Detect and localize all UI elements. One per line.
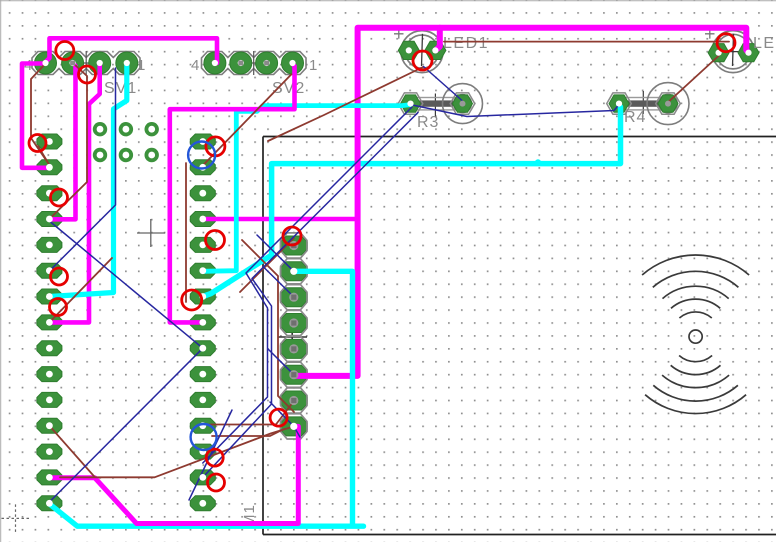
wire trace cyan SV1-4 to JP1-7 <box>49 63 126 297</box>
connector JP1 pads (left column) <box>37 134 62 511</box>
wire airwire maroon to SV3-6 <box>242 240 294 412</box>
LED2 pads <box>708 44 759 62</box>
header SV1 outline <box>32 52 140 75</box>
wire airwire maroon cross SV3-1 <box>240 238 294 292</box>
wire airwire navy LED1 to R3-2 <box>424 67 463 101</box>
wire trace magenta JP2-4 branch to bus <box>203 217 358 222</box>
wire airwire navy JP2-9 to JP1-15 <box>49 348 202 502</box>
pad drill holes <box>42 47 751 506</box>
origin cross R3 <box>424 94 447 118</box>
DRC error markers (red circles) <box>29 34 735 491</box>
svg-text:R4: R4 <box>624 109 646 126</box>
wire trace cyan R4-1 to JP2-7 <box>203 105 621 297</box>
wire airwire maroon JP2-12 to SV3-7 <box>206 401 294 425</box>
R3 pads <box>401 95 473 112</box>
origin cross U1 (module at 150,233) <box>137 219 165 247</box>
wire airwire navy SV1-4 to JP1-6 <box>49 68 115 271</box>
svg-text:4: 4 <box>191 57 200 74</box>
wire airwire navy into SV3-3 <box>263 267 296 300</box>
wire airwire navy steep bottom <box>189 410 232 500</box>
resistor R4 pad rings <box>647 83 689 125</box>
wire airwire maroon SV1-1 to JP1-2 <box>31 64 49 166</box>
svg-text:SV1: SV1 <box>104 80 137 97</box>
wire trace magenta power bus to LED2 <box>294 28 749 376</box>
wire trace cyan R3-1 to JP2-6 <box>203 105 411 272</box>
wire airwire navy into SV3-8 <box>270 402 300 437</box>
LED2 plus polarity mark <box>705 29 715 39</box>
wire airwire navy R3 to R4 <box>411 105 620 117</box>
wire airwire navy R3-1 long diagonal <box>203 107 412 463</box>
svg-text:1: 1 <box>309 57 318 74</box>
origin crosshair sheet (dashed, bottom left) <box>2 504 30 532</box>
connector SV3 pin collars <box>281 233 307 439</box>
R4 pad collars <box>607 93 681 114</box>
wire board-outline left edge <box>262 137 264 535</box>
connector JP2 pads (middle column) <box>190 134 215 511</box>
connector SV3 pads (right column) <box>280 236 307 436</box>
svg-text:LED: LED <box>753 35 776 52</box>
wire board-outline top edge <box>263 136 776 138</box>
wire airwire maroon JP1-1 to JP1-2 <box>38 146 49 165</box>
LED1 silkscreen circles <box>401 31 443 73</box>
wire airwire navy JP1-4 to JP2-9 <box>49 221 202 348</box>
wire board-outline bottom edge <box>263 534 776 536</box>
svg-text:1: 1 <box>137 57 146 74</box>
header SV2 outline <box>202 52 307 75</box>
wire trace magenta SV1-2 to JP1-3 <box>49 64 75 219</box>
wire airwire maroon SV2-1 to JP2-2 <box>203 74 291 165</box>
wire trace magenta SV1-1 to SV2-4 <box>46 38 218 63</box>
origin cross R4 <box>632 91 655 114</box>
wire airwire maroon SV1-2 to JP1-4 <box>49 64 87 219</box>
SV3 pad holes (gray rings) <box>289 241 298 430</box>
resistor R4 body <box>623 98 661 110</box>
wire trace magenta JP1-14 to SV3-8 <box>49 426 298 523</box>
header SV2 pads 1-4 <box>204 52 304 74</box>
frame top edge <box>0 0 776 2</box>
wire airwire maroon to JP1-8 <box>49 258 112 322</box>
frame left edge <box>0 0 2 542</box>
resistor R3 pad rings <box>443 84 483 124</box>
wire airwire maroon LED1 to LED2 <box>444 41 729 43</box>
LED2 silkscreen circles <box>712 31 754 73</box>
wire airwire navy R3-1b long diagonal <box>203 113 418 478</box>
wire airwire maroon LED2 to R4-2 <box>669 56 719 102</box>
origin cross SV3 (column connector) <box>278 323 307 351</box>
origin cross SV2 <box>242 51 267 75</box>
antenna logo (wifi arcs) <box>642 255 749 414</box>
header SV1 pads 1-4 <box>35 52 138 74</box>
junction dot on cyan net <box>535 159 541 165</box>
wire airwire maroon LED1 to JP2 <box>268 67 423 141</box>
svg-text:LED1: LED1 <box>443 35 489 52</box>
wire airwire navy into SV3-6 <box>268 349 294 375</box>
R3 pad collars <box>398 93 475 114</box>
origin cross SV1 <box>74 51 98 75</box>
wire trace magenta bus branch to LED1 <box>435 28 439 51</box>
resistor R3 body <box>417 98 455 110</box>
LED1 plus polarity mark <box>394 29 404 39</box>
wire trace magenta SV1-3 to JP1-8 <box>49 64 99 322</box>
R3 R4 right pad holes <box>460 101 672 107</box>
wire airwire maroon JP1-14 to SV3-8 <box>49 426 293 478</box>
via field (2x3 vias) <box>93 122 159 162</box>
wire airwire maroon JP2 to SV3-8b <box>212 429 284 436</box>
wire trace cyan SV3-2 to JP1-15 <box>49 271 363 526</box>
svg-text:R3: R3 <box>417 114 439 131</box>
wire airwire maroon JP2 vertical <box>185 163 187 302</box>
wire airwire navy into SV3-2 <box>257 235 294 271</box>
header center holes gray <box>70 61 269 66</box>
wire trace magenta SV2-1 to JP2-8 <box>170 64 295 322</box>
LED2 cathode mark line <box>726 34 740 66</box>
R4 pads <box>609 95 678 112</box>
LED1 pads <box>398 41 446 59</box>
selection markers (blue circles) <box>188 142 217 451</box>
wire trace magenta SV1-1 to JP1-2 <box>22 64 48 168</box>
LED1 cathode mark line <box>415 34 429 66</box>
